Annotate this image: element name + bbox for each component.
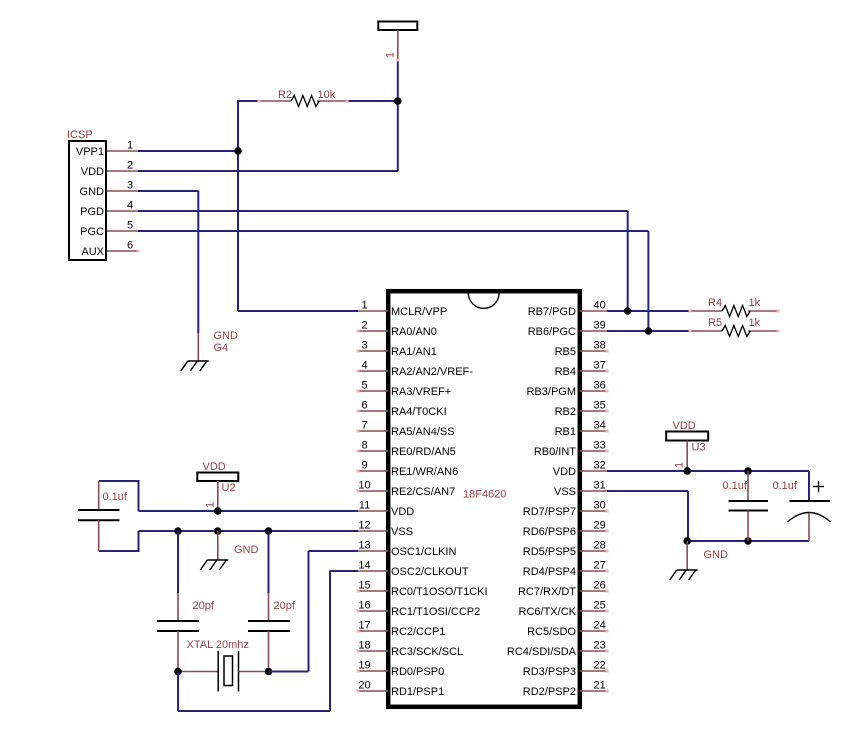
IC pin 28 stub [580, 550, 607, 552]
open end marker AUX [137, 250, 140, 253]
power symbol VDD bar U3 [666, 432, 708, 441]
svg-text:1k: 1k [749, 297, 761, 309]
svg-text:13: 13 [358, 539, 370, 551]
open end marker R4 [777, 310, 780, 313]
IC pin 17 stub [358, 630, 388, 632]
svg-text:30: 30 [594, 499, 606, 511]
wire vertical PGC down [647, 231, 649, 331]
wire xtal right to OSC1 riser [269, 671, 309, 673]
IC pin 34 stub [580, 430, 607, 432]
pin 1 stem of top VDD bar [397, 30, 399, 60]
svg-text:4: 4 [127, 200, 133, 212]
node PGC/RB6 [645, 327, 653, 335]
svg-text:RB6/PGC: RB6/PGC [528, 326, 576, 338]
svg-text:MCLR/VPP: MCLR/VPP [391, 306, 447, 318]
wire to OSC1 pin13 [309, 550, 359, 552]
svg-text:U2: U2 [222, 482, 236, 494]
svg-text:RC4/SDI/SDA: RC4/SDI/SDA [507, 646, 577, 658]
svg-text:27: 27 [594, 559, 606, 571]
svg-text:R2: R2 [278, 89, 292, 101]
open end marker pin 19 [357, 670, 360, 673]
svg-text:RB0/INT: RB0/INT [534, 446, 576, 458]
svg-text:20: 20 [358, 679, 370, 691]
wire to OSC2 pin14 [330, 570, 358, 572]
open end marker pin 15 [357, 590, 360, 593]
IC pin 35 stub [580, 410, 607, 412]
svg-text:16: 16 [358, 599, 370, 611]
svg-text:34: 34 [594, 419, 606, 431]
node U2/pin11 [214, 507, 222, 515]
svg-text:RD5/PSP5: RD5/PSP5 [523, 546, 576, 558]
node xtal right [265, 668, 273, 676]
svg-text:1: 1 [205, 502, 217, 508]
svg-text:20pf: 20pf [274, 600, 296, 612]
wire VDD stem down to node [397, 60, 399, 101]
svg-text:2: 2 [127, 160, 133, 172]
svg-text:R5: R5 [708, 317, 722, 329]
svg-text:PGC: PGC [80, 226, 104, 238]
svg-text:RC2/CCP1: RC2/CCP1 [391, 626, 445, 638]
IC pin 27 stub [580, 570, 607, 572]
capacitor 20pf (left) [157, 593, 199, 672]
open end marker pin 34 [606, 430, 609, 433]
svg-text:VDD: VDD [203, 461, 226, 473]
IC pin 6 stub [358, 410, 388, 412]
ground stem (U3 area) [686, 541, 688, 570]
wire PGD row pin4 [138, 210, 628, 212]
svg-text:RD1/PSP1: RD1/PSP1 [391, 686, 444, 698]
svg-text:RE1/WR/AN6: RE1/WR/AN6 [391, 466, 458, 478]
node xtal left [174, 668, 182, 676]
IC pin 3 stub [358, 350, 388, 352]
ICSP pin 3 stub [107, 190, 138, 192]
svg-text:U3: U3 [692, 442, 706, 454]
svg-text:XTAL 20mhz: XTAL 20mhz [187, 639, 249, 651]
open end marker pin 16 [357, 610, 360, 613]
svg-text:RB1: RB1 [555, 426, 576, 438]
svg-text:31: 31 [594, 479, 606, 491]
capacitor 0.1uf (left) [78, 481, 120, 551]
svg-text:11: 11 [359, 499, 370, 511]
svg-text:17: 17 [358, 619, 370, 631]
open end marker pin 2 [357, 330, 360, 333]
wire left 20pf drop [177, 531, 179, 593]
svg-text:RA1/AN1: RA1/AN1 [391, 346, 437, 358]
node xtal-right/VSS [265, 527, 273, 535]
svg-text:R4: R4 [708, 297, 722, 309]
svg-text:3: 3 [361, 339, 367, 351]
svg-text:25: 25 [594, 599, 606, 611]
IC pin 30 stub [580, 510, 607, 512]
svg-text:RC5/SDO: RC5/SDO [527, 626, 576, 638]
svg-text:ICSP: ICSP [67, 129, 93, 141]
wire GND row pin3 [138, 190, 198, 192]
wire vertical PGD down [627, 211, 629, 311]
svg-text:18F4620: 18F4620 [463, 489, 506, 501]
svg-text:23: 23 [594, 639, 606, 651]
ICSP pin 4 stub [107, 210, 138, 212]
svg-text:15: 15 [358, 579, 370, 591]
wire node down to VDD row [397, 101, 399, 171]
IC pin 8 stub [358, 450, 388, 452]
svg-text:GND: GND [234, 544, 259, 556]
wire pin row to R5 [607, 330, 690, 332]
svg-text:VDD: VDD [81, 166, 104, 178]
svg-text:RB5: RB5 [555, 346, 576, 358]
svg-text:19: 19 [358, 659, 370, 671]
IC pin 4 stub [358, 370, 388, 372]
svg-text:39: 39 [594, 319, 606, 331]
wire bottom gnd rail [687, 540, 809, 542]
open end marker pin 23 [606, 650, 609, 653]
wire right vertical to cap C+ [808, 471, 810, 501]
open end marker pin 8 [357, 450, 360, 453]
node VPP1/vertical [234, 147, 242, 155]
svg-text:12: 12 [358, 519, 370, 531]
wire vertical VPP net x238 [237, 100, 239, 311]
ground symbol (U3 area) [670, 570, 698, 580]
capacitor 20pf (right) [248, 593, 290, 672]
svg-text:RD4/PSP4: RD4/PSP4 [523, 566, 576, 578]
node PGD/RB7 [624, 307, 632, 315]
open end marker pin 20 [357, 690, 360, 693]
svg-text:RB7/PGD: RB7/PGD [528, 306, 576, 318]
IC pin 12 stub [358, 530, 388, 532]
resistor R2 [259, 96, 347, 107]
wire pin32 VDD row [607, 470, 809, 472]
ICSP pin 2 stub [107, 170, 138, 172]
IC pin 24 stub [580, 630, 607, 632]
svg-text:VSS: VSS [391, 526, 413, 538]
svg-text:38: 38 [594, 339, 606, 351]
svg-text:4: 4 [361, 359, 367, 371]
svg-text:RD2/PSP2: RD2/PSP2 [523, 686, 576, 698]
open end marker pin 17 [357, 630, 360, 633]
node U3/pin32 [683, 467, 691, 475]
ground stem (U2 area) [217, 531, 219, 560]
open end marker pin 24 [606, 630, 609, 633]
IC pin 19 stub [358, 670, 388, 672]
crystal XTAL 20mhz [178, 651, 269, 692]
svg-text:20pf: 20pf [193, 600, 215, 612]
open end marker pin 18 [357, 650, 360, 653]
plus sign [813, 486, 824, 488]
svg-text:35: 35 [594, 399, 606, 411]
IC pin 18 stub [358, 650, 388, 652]
svg-text:26: 26 [594, 579, 606, 591]
IC pin 20 stub [358, 690, 388, 692]
svg-text:0.1uf: 0.1uf [773, 480, 798, 492]
IC pin 23 stub [580, 650, 607, 652]
svg-text:0.1uf: 0.1uf [723, 480, 748, 492]
IC pin 21 stub [580, 690, 607, 692]
IC U1 18F4620 body [388, 291, 580, 707]
svg-text:RA2/AN2/VREF-: RA2/AN2/VREF- [391, 366, 473, 378]
IC pin 13 stub [358, 550, 388, 552]
IC pin 2 stub [358, 330, 388, 332]
wire pin row to R4 [607, 310, 690, 312]
svg-text:1: 1 [127, 140, 133, 152]
open end markers R2 leads [258, 100, 261, 103]
IC pin 14 stub [358, 570, 388, 572]
node cap1 bottom [744, 537, 752, 545]
wire R2 right to node [347, 100, 398, 102]
open end marker pin 36 [606, 390, 609, 393]
node gnd rail left [683, 537, 691, 545]
ICSP pin 1 stub [107, 150, 138, 152]
svg-text:VPP1: VPP1 [76, 146, 104, 158]
open end marker pin 27 [606, 570, 609, 573]
svg-text:RB4: RB4 [555, 366, 576, 378]
IC pin 32 stub [580, 470, 607, 472]
svg-text:10: 10 [358, 479, 370, 491]
IC pin 29 stub [580, 530, 607, 532]
IC notch [468, 293, 499, 308]
open end marker pin 26 [606, 590, 609, 593]
svg-text:RA0/AN0: RA0/AN0 [391, 326, 437, 338]
wire PGC row pin5 [138, 230, 648, 232]
svg-text:2: 2 [361, 319, 367, 331]
svg-text:VDD: VDD [673, 420, 696, 432]
wire to MCLR pin 1 [238, 310, 358, 312]
svg-text:RD0/PSP0: RD0/PSP0 [391, 666, 444, 678]
resistor R4 [690, 306, 778, 317]
IC pin 38 stub [580, 350, 607, 352]
IC pin 9 stub [358, 470, 388, 472]
svg-text:RE2/CS/AN7: RE2/CS/AN7 [391, 486, 455, 498]
svg-text:G4: G4 [214, 342, 229, 354]
open end marker pin 25 [606, 610, 609, 613]
svg-text:29: 29 [594, 519, 606, 531]
svg-text:24: 24 [594, 619, 606, 631]
svg-text:VSS: VSS [554, 486, 576, 498]
svg-text:RA5/AN4/SS: RA5/AN4/SS [391, 426, 455, 438]
open end marker pin 38 [606, 350, 609, 353]
svg-text:18: 18 [358, 639, 370, 651]
IC pin 36 stub [580, 390, 607, 392]
wire VSS row pin12 [139, 530, 359, 532]
IC pin 25 stub [580, 610, 607, 612]
svg-text:22: 22 [594, 659, 606, 671]
IC pin 26 stub [580, 590, 607, 592]
svg-text:VDD: VDD [553, 466, 576, 478]
ground symbol (U2 area) [200, 560, 228, 570]
svg-text:RC6/TX/CK: RC6/TX/CK [519, 606, 577, 618]
IC pin 31 stub [580, 490, 607, 492]
svg-text:RD6/PSP6: RD6/PSP6 [523, 526, 576, 538]
connector ICSP body [69, 141, 106, 260]
power symbol VDD bar (top) [378, 22, 417, 31]
open end marker pin 6 [357, 410, 360, 413]
svg-text:28: 28 [594, 539, 606, 551]
svg-text:RD7/PSP7: RD7/PSP7 [523, 506, 576, 518]
svg-text:1: 1 [385, 52, 397, 58]
svg-text:10k: 10k [318, 89, 336, 101]
wire pin31 VSS row [607, 490, 688, 492]
wire R2 left to vertical [238, 100, 259, 102]
ground G4 symbol [181, 361, 209, 371]
svg-text:PGD: PGD [80, 206, 104, 218]
svg-text:5: 5 [361, 379, 367, 391]
svg-text:RC0/T1OSO/T1CKI: RC0/T1OSO/T1CKI [391, 586, 488, 598]
svg-text:RD3/PSP3: RD3/PSP3 [523, 666, 576, 678]
svg-text:32: 32 [594, 459, 606, 471]
svg-text:OSC2/CLKOUT: OSC2/CLKOUT [391, 566, 469, 578]
IC pin 37 stub [580, 370, 607, 372]
wire bottom rail up to OSC2 [329, 571, 331, 711]
open end marker pin 10 [357, 490, 360, 493]
ground G4 stem [197, 333, 199, 361]
svg-text:RA3/VREF+: RA3/VREF+ [391, 386, 451, 398]
IC pin 10 stub [358, 490, 388, 492]
pin 1 stem U3 [686, 441, 688, 470]
open end marker pin 28 [606, 550, 609, 553]
svg-text:RC3/SCK/SCL: RC3/SCK/SCL [391, 646, 463, 658]
open end marker pin 9 [357, 470, 360, 473]
capacitor 0.1uf polarized (right #2) [788, 501, 831, 541]
svg-text:14: 14 [358, 559, 370, 571]
open end marker R5 [777, 330, 780, 333]
IC pin 5 stub [358, 390, 388, 392]
svg-text:RE0/RD/AN5: RE0/RD/AN5 [391, 446, 456, 458]
IC pin 39 stub [580, 330, 607, 332]
wire right 20pf drop [268, 531, 270, 593]
node R2/VDD [394, 97, 402, 105]
open end marker pin 37 [606, 370, 609, 373]
wire cap top route [99, 481, 139, 511]
open end marker pin 4 [357, 370, 360, 373]
svg-text:5: 5 [127, 220, 133, 232]
svg-text:GND: GND [704, 549, 729, 561]
open end marker pin 5 [357, 390, 360, 393]
open end marker pin 29 [606, 530, 609, 533]
open end marker pin 35 [606, 410, 609, 413]
svg-text:1: 1 [361, 299, 367, 311]
svg-text:1k: 1k [749, 317, 761, 329]
svg-text:36: 36 [594, 379, 606, 391]
svg-text:RC1/T1OSI/CCP2: RC1/T1OSI/CCP2 [391, 606, 480, 618]
svg-text:21: 21 [594, 679, 606, 691]
IC pin 22 stub [580, 670, 607, 672]
svg-text:33: 33 [594, 439, 606, 451]
resistor R5 [690, 326, 778, 337]
IC pin 11 stub [358, 510, 388, 512]
open end marker pin 21 [606, 690, 609, 693]
svg-text:6: 6 [361, 399, 367, 411]
wire VPP1 row [138, 150, 238, 152]
wire VDD row pin11 [139, 510, 359, 512]
svg-text:RB2: RB2 [555, 406, 576, 418]
IC pin 7 stub [358, 430, 388, 432]
svg-text:RC7/RX/DT: RC7/RX/DT [518, 586, 576, 598]
open end marker pin 3 [357, 350, 360, 353]
capacitor 0.1uf (right #1) [729, 471, 769, 541]
svg-text:6: 6 [127, 240, 133, 252]
ICSP pin 6 stub [107, 250, 138, 252]
svg-text:9: 9 [361, 459, 367, 471]
svg-text:7: 7 [361, 419, 367, 431]
svg-text:VDD: VDD [391, 506, 414, 518]
node xtal-left/VSS [174, 527, 182, 535]
wire OSC1 riser [308, 551, 310, 672]
IC pin 1 stub [358, 310, 388, 312]
pin 1 stem U2 [217, 481, 219, 509]
wire VSS down to gnd rail [687, 491, 689, 541]
power symbol VDD bar U2 [197, 473, 238, 482]
svg-text:OSC1/CLKIN: OSC1/CLKIN [391, 546, 456, 558]
svg-text:40: 40 [594, 299, 606, 311]
IC pin 40 stub [580, 310, 607, 312]
svg-text:37: 37 [594, 359, 606, 371]
ICSP pin 5 stub [107, 230, 138, 232]
svg-text:8: 8 [361, 439, 367, 451]
IC pin 33 stub [580, 450, 607, 452]
wire vertical to GND G4 [197, 191, 199, 333]
open end marker pin 22 [606, 670, 609, 673]
open end marker pin 33 [606, 450, 609, 453]
node cap1 top [744, 467, 752, 475]
svg-text:GND: GND [214, 330, 239, 342]
svg-text:GND: GND [80, 186, 105, 198]
open end marker pin 7 [357, 430, 360, 433]
wire bottom rail [178, 710, 330, 712]
svg-text:AUX: AUX [81, 246, 104, 258]
IC pin 16 stub [358, 610, 388, 612]
svg-text:RB3/PGM: RB3/PGM [526, 386, 576, 398]
svg-text:0.1uf: 0.1uf [103, 491, 128, 503]
IC pin 15 stub [358, 590, 388, 592]
wire ICSP pin2 VDD row [138, 170, 398, 172]
svg-text:3: 3 [127, 180, 133, 192]
svg-text:1: 1 [674, 462, 686, 468]
open end marker pin 30 [606, 510, 609, 513]
wire cap bottom route [99, 531, 139, 551]
wire xtal left to bottom rail [177, 672, 179, 712]
svg-text:RA4/T0CKI: RA4/T0CKI [391, 406, 447, 418]
node U2gnd/VSS [214, 527, 222, 535]
